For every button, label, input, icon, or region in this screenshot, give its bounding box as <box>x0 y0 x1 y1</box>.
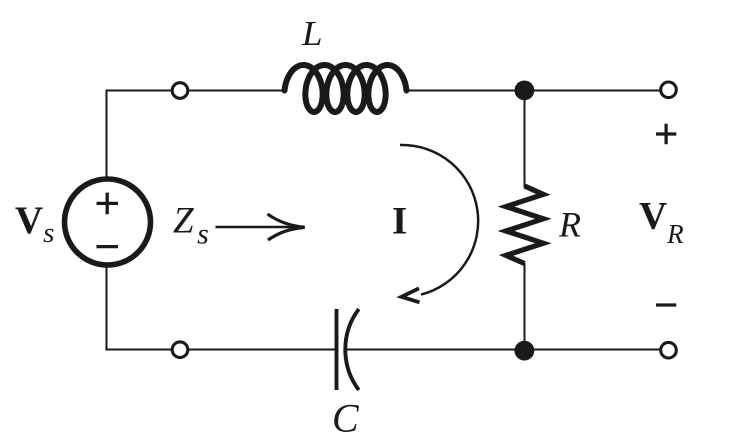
wire bottom-right horizontal <box>346 349 669 351</box>
wire left vertical upper <box>106 89 108 177</box>
terminal node bottom-left <box>172 342 188 358</box>
capacitor C plate right curved <box>345 309 359 390</box>
resistor R <box>506 186 543 264</box>
svg-text:L: L <box>301 14 323 53</box>
wire resistor bottom lead <box>524 263 526 350</box>
wire bottom-left horizontal <box>105 349 335 351</box>
source Vs plus sign <box>97 193 119 215</box>
junction node bottom <box>515 341 535 361</box>
polarity minus VR <box>656 303 676 306</box>
svg-text:C: C <box>332 396 360 441</box>
wire resistor top lead <box>524 91 526 188</box>
polarity plus VR <box>656 124 676 144</box>
capacitor C plate left <box>335 309 339 390</box>
terminal node top-right <box>661 82 677 98</box>
wire top-left horizontal <box>107 90 284 92</box>
wire top-right horizontal <box>408 90 669 92</box>
inductor L <box>285 65 407 112</box>
terminal node top-left <box>172 83 188 99</box>
mesh current arrow I <box>400 145 478 302</box>
svg-text:R: R <box>558 205 581 245</box>
svg-text:I: I <box>392 200 407 243</box>
source Vs circle <box>65 179 151 265</box>
wire left vertical lower <box>106 267 108 351</box>
source Vs minus sign <box>97 245 119 248</box>
terminal node bottom-right <box>661 342 677 358</box>
impedance arrow Zs <box>216 214 305 240</box>
junction node top <box>515 81 535 101</box>
